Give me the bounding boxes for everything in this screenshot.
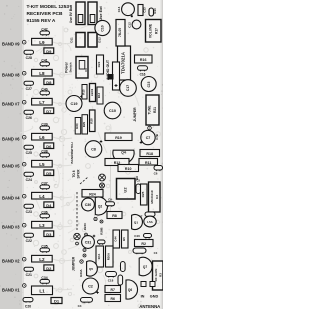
- svg-text:TUNE: TUNE: [148, 105, 152, 115]
- capacitor C21: [24, 267, 34, 277]
- svg-text:U3: U3: [155, 195, 159, 199]
- pad q2 base: [94, 217, 97, 220]
- svg-text:C24: C24: [26, 178, 32, 182]
- svg-text:D4: D4: [46, 203, 52, 208]
- svg-text:L5A: L5A: [147, 220, 154, 224]
- scan noise (decorative): [0, 1, 164, 309]
- band label BAND #8: [2, 73, 20, 78]
- svg-text:C10: C10: [101, 25, 105, 31]
- svg-text:C7B: C7B: [155, 134, 159, 140]
- diode D12: [88, 33, 97, 48]
- svg-text:RECEIVER PCB: RECEIVER PCB: [27, 11, 64, 17]
- diode D5: [44, 170, 54, 176]
- resistor R30: [75, 118, 81, 135]
- svg-text:L9: L9: [39, 40, 45, 45]
- svg-text:R16: R16: [140, 58, 147, 62]
- capacitor C27: [24, 81, 34, 91]
- resistor R15: [82, 85, 87, 100]
- label TO 8 SPKR: [72, 169, 81, 179]
- svg-text:C15: C15: [147, 81, 151, 87]
- svg-text:BAND #7: BAND #7: [2, 102, 20, 107]
- band label BAND #1: [2, 288, 20, 293]
- copper traces (decorative): [20, 14, 160, 308]
- capacitor C10B: [95, 20, 110, 35]
- pad BAND #4: [22, 194, 26, 198]
- svg-text:C30: C30: [85, 203, 92, 207]
- svg-text:R17: R17: [154, 28, 158, 34]
- potentiometer R21 TUNE: [146, 95, 159, 125]
- resistor R29: [82, 115, 88, 134]
- svg-text:D11: D11: [70, 37, 74, 43]
- coil L5A: [144, 216, 156, 227]
- resistor R26: [99, 220, 103, 235]
- label Use 9V Batt: [69, 4, 73, 23]
- capacitor C30: [82, 198, 95, 211]
- inductor L4: [32, 192, 53, 199]
- resistor R12: [105, 159, 129, 166]
- svg-text:R7: R7: [111, 288, 115, 292]
- svg-text:BAND #3: BAND #3: [2, 225, 20, 230]
- svg-text:IN: IN: [141, 295, 145, 299]
- svg-text:BAND #5: BAND #5: [2, 164, 20, 169]
- svg-text:C7: C7: [146, 136, 151, 140]
- inductor L6: [32, 133, 53, 140]
- IC U3 MC34119: [149, 182, 161, 212]
- pad mounting (filled): [108, 74, 114, 80]
- capacitor C44: [113, 230, 120, 248]
- svg-text:C31: C31: [85, 241, 92, 245]
- resistor R7: [105, 286, 121, 293]
- pad tune: [148, 126, 152, 130]
- IC U2: [117, 179, 136, 200]
- svg-text:R3: R3: [158, 273, 162, 277]
- diode D8: [44, 79, 54, 85]
- capacitor C17: [120, 80, 137, 97]
- svg-text:L1: L1: [39, 289, 45, 294]
- svg-text:D2: D2: [46, 266, 52, 271]
- connector audio out J1: [113, 62, 120, 90]
- svg-text:C25: C25: [26, 151, 32, 155]
- svg-text:C44: C44: [113, 236, 117, 242]
- svg-text:Q5: Q5: [89, 267, 93, 271]
- svg-text:D8: D8: [46, 80, 52, 85]
- label R24A: [79, 269, 83, 276]
- resistor R8: [107, 212, 122, 219]
- svg-text:C8: C8: [91, 148, 96, 152]
- speaker terminal 1: [99, 174, 106, 181]
- resistor R11: [139, 159, 158, 166]
- svg-text:C12: C12: [127, 22, 131, 28]
- transistor Q7: [139, 257, 152, 275]
- svg-text:C21: C21: [26, 273, 32, 277]
- pad BAND #3: [22, 223, 26, 227]
- LED LED1: [90, 84, 96, 102]
- svg-text:Switch: Switch: [69, 62, 73, 72]
- svg-text:R2: R2: [141, 242, 146, 246]
- pad BAND #8: [22, 71, 26, 75]
- capacitor C20: [23, 298, 33, 309]
- capacitor C26: [24, 110, 34, 120]
- svg-text:R13: R13: [97, 92, 101, 98]
- pad BAND #9: [22, 40, 26, 44]
- resistor R25: [141, 184, 148, 205]
- svg-text:R5: R5: [122, 237, 126, 241]
- diode D6: [44, 143, 54, 149]
- capacitor C9: [84, 68, 88, 72]
- IC U4 regulator: [116, 20, 125, 47]
- switch S1: [76, 57, 88, 79]
- svg-text:TO 8: TO 8: [72, 170, 76, 177]
- capacitor C40: [134, 234, 151, 239]
- capacitor C4: [78, 298, 93, 309]
- svg-text:T-KIT MODEL 1253: T-KIT MODEL 1253: [27, 4, 70, 10]
- svg-text:R26B: R26B: [99, 227, 103, 234]
- inductor L9: [32, 38, 53, 45]
- svg-text:R23C: R23C: [83, 222, 87, 230]
- svg-text:Q6: Q6: [128, 288, 132, 292]
- resistor R9: [135, 176, 139, 180]
- capacitor C35: [40, 244, 50, 253]
- svg-text:C14: C14: [117, 6, 121, 12]
- svg-text:R11: R11: [145, 161, 151, 165]
- svg-text:ANTENNA: ANTENNA: [139, 304, 160, 309]
- capacitor C36: [40, 210, 50, 219]
- capacitor C2B: [118, 275, 123, 285]
- resistor R28: [89, 110, 95, 132]
- svg-text:R22: R22: [97, 61, 101, 67]
- svg-text:C27: C27: [26, 87, 32, 91]
- capacitor C23: [24, 204, 34, 214]
- resistor R23: [83, 222, 87, 236]
- svg-text:LED1: LED1: [90, 88, 94, 96]
- svg-text:R19: R19: [115, 136, 122, 140]
- svg-text:C19: C19: [71, 102, 78, 106]
- capacitor C37: [40, 181, 50, 190]
- pad P2: [83, 254, 86, 257]
- pad BAND #7: [22, 100, 26, 104]
- capacitor C42: [40, 27, 50, 36]
- band label BAND #4: [2, 196, 20, 201]
- capacitor C39: [40, 122, 50, 130]
- svg-text:R21: R21: [153, 107, 157, 113]
- resistor R5: [122, 230, 129, 248]
- inductor L2: [32, 255, 53, 262]
- svg-text:BAND #8: BAND #8: [2, 73, 20, 78]
- svg-text:BAND #2: BAND #2: [2, 259, 20, 264]
- svg-text:D12: D12: [98, 37, 102, 43]
- transistor Q6: [126, 280, 138, 299]
- svg-text:C18: C18: [108, 279, 114, 283]
- svg-text:C23: C23: [26, 210, 32, 214]
- inductor L3: [32, 221, 53, 228]
- label Use Ext: [98, 6, 103, 21]
- transistor Q1: [132, 215, 143, 230]
- title text: [27, 4, 70, 24]
- svg-text:BAND #1: BAND #1: [2, 288, 20, 293]
- svg-text:C6: C6: [154, 172, 158, 176]
- capacitor C10: [104, 102, 121, 119]
- band label BAND #6: [2, 137, 20, 142]
- svg-text:R9: R9: [135, 176, 139, 180]
- svg-text:R18: R18: [146, 152, 153, 156]
- capacitor C2: [83, 278, 99, 294]
- diode D9: [44, 48, 54, 54]
- svg-text:BAND #4: BAND #4: [2, 196, 20, 201]
- capacitor C28: [24, 50, 34, 60]
- inductor L1: [32, 286, 53, 295]
- svg-text:R24: R24: [89, 193, 96, 197]
- svg-text:C10: C10: [109, 109, 116, 113]
- diode D3: [44, 231, 54, 237]
- capacitor C9B: [106, 198, 115, 207]
- svg-text:L3: L3: [39, 223, 45, 228]
- diode D1: [51, 298, 62, 304]
- svg-text:C13: C13: [143, 7, 147, 13]
- transistor Q2: [95, 197, 107, 215]
- capacitor C33: [98, 240, 106, 245]
- capacitor C12: [127, 20, 141, 29]
- transistor Q4: [113, 150, 134, 163]
- svg-text:D3: D3: [46, 232, 52, 237]
- svg-text:BAND #6: BAND #6: [2, 137, 20, 142]
- svg-text:L5: L5: [39, 162, 45, 167]
- diode D11: [76, 33, 85, 48]
- svg-text:C4: C4: [78, 304, 82, 308]
- label ANTENNA: [139, 304, 160, 309]
- label IN GND: [141, 295, 159, 299]
- capacitor C24: [24, 172, 34, 182]
- svg-text:Use Ext: Use Ext: [98, 6, 103, 21]
- band label BAND #2: [2, 259, 20, 264]
- svg-text:C40: C40: [134, 234, 140, 238]
- svg-text:C17: C17: [126, 85, 130, 91]
- pad BAND #2: [22, 257, 26, 261]
- capacitor C7B: [140, 130, 159, 144]
- capacitor C18: [106, 272, 117, 283]
- resistor R7A: [96, 246, 104, 267]
- capacitor C14: [117, 3, 134, 18]
- label JUMPER: [133, 107, 137, 122]
- inductor L5: [32, 160, 53, 167]
- svg-text:C9: C9: [84, 68, 88, 72]
- battery clip B1: [76, 2, 85, 25]
- transistor Q5: [87, 261, 98, 276]
- band label BAND #9: [2, 42, 20, 47]
- label Power Switch: [64, 62, 72, 73]
- svg-text:BAND #9: BAND #9: [2, 42, 20, 47]
- svg-text:TDA7021A: TDA7021A: [120, 51, 125, 74]
- svg-text:RF GAIN: RF GAIN: [154, 268, 158, 281]
- potentiometer R3 RF GAIN: [153, 261, 164, 290]
- band label BAND #7: [2, 102, 20, 107]
- battery clip B2: [88, 2, 97, 25]
- resistor R18: [140, 150, 160, 157]
- svg-text:JUMPER: JUMPER: [72, 256, 76, 271]
- svg-text:R25: R25: [141, 191, 145, 197]
- svg-text:D6: D6: [46, 144, 52, 149]
- capacitor C15: [141, 77, 156, 92]
- wire dashed speaker: [77, 177, 88, 230]
- svg-text:Q4: Q4: [121, 151, 126, 155]
- svg-text:91155 REV A: 91155 REV A: [27, 18, 56, 24]
- capacitor C40: [40, 87, 50, 96]
- board outline: [0, 0, 163, 309]
- capacitor C16: [138, 66, 148, 77]
- resistor R2: [135, 240, 154, 247]
- capacitor C41: [40, 58, 50, 67]
- svg-text:D7: D7: [46, 109, 52, 114]
- pad IN: [141, 282, 146, 287]
- pad BAND #6: [22, 135, 26, 139]
- resistor R16: [135, 55, 153, 63]
- capacitor C7: [139, 212, 155, 219]
- speaker terminal 2: [100, 183, 105, 188]
- svg-text:L7: L7: [39, 100, 45, 105]
- svg-text:R15: R15: [82, 89, 86, 95]
- band label BAND #3: [2, 225, 20, 230]
- svg-text:SPKR: SPKR: [77, 169, 81, 179]
- capacitor C25: [24, 145, 34, 155]
- capacitor C19: [66, 95, 83, 111]
- capacitor C5: [136, 179, 141, 194]
- resistor R19: [105, 133, 132, 141]
- resistor R24: [82, 190, 103, 198]
- capacitor C34: [40, 276, 50, 284]
- svg-text:C9: C9: [108, 198, 112, 202]
- label D11: [70, 37, 74, 43]
- label D12: [98, 37, 102, 43]
- resistor R6: [105, 295, 121, 302]
- capacitor C13: [138, 5, 147, 16]
- svg-text:GND: GND: [150, 295, 159, 299]
- speaker terminal 3: [74, 233, 80, 245]
- pad BAND #1: [23, 284, 27, 288]
- inductor L8: [32, 69, 53, 76]
- svg-text:D5: D5: [46, 171, 52, 176]
- capacitor C38: [40, 149, 50, 158]
- resistor R12A: [97, 87, 103, 104]
- inductor L7: [32, 98, 53, 105]
- svg-text:R6: R6: [111, 297, 115, 301]
- potentiometer R17 VOLUME: [146, 20, 162, 43]
- pad P1: [83, 249, 86, 252]
- svg-text:VOLUME: VOLUME: [149, 23, 153, 38]
- pad R24A: [80, 260, 83, 263]
- capacitor C31: [82, 235, 96, 249]
- diode D4: [44, 202, 54, 208]
- svg-text:D9: D9: [46, 49, 52, 54]
- IC U1: [118, 42, 131, 81]
- svg-text:L8: L8: [39, 71, 45, 76]
- resistor R22: [97, 55, 104, 74]
- resistor R20: [106, 246, 114, 267]
- label AUDIO OUT: [106, 59, 110, 80]
- svg-text:R8: R8: [112, 214, 117, 218]
- svg-text:Q2: Q2: [98, 205, 102, 209]
- svg-text:C20: C20: [25, 305, 31, 309]
- resistor R10: [118, 165, 139, 172]
- pad BAND #5: [22, 162, 26, 166]
- resistor R13: [149, 8, 157, 16]
- svg-text:78L05: 78L05: [118, 28, 122, 37]
- svg-text:Use 9V Batt: Use 9V Batt: [69, 4, 73, 23]
- svg-text:C2: C2: [88, 285, 93, 289]
- label JUMPER 2: [72, 256, 76, 271]
- label BANDSWITCH: [70, 142, 74, 164]
- svg-text:R29: R29: [82, 121, 86, 127]
- capacitor C3: [121, 262, 126, 272]
- pad GND: [150, 282, 155, 287]
- band label BAND #5: [2, 164, 20, 169]
- svg-text:Q1: Q1: [134, 221, 138, 225]
- svg-text:R10: R10: [125, 167, 132, 171]
- capacitor C8: [85, 140, 102, 157]
- diode D2: [44, 265, 54, 271]
- svg-text:D1: D1: [54, 299, 60, 304]
- svg-text:C28: C28: [26, 56, 32, 60]
- diode D7: [44, 108, 54, 114]
- svg-text:BANDSWITCH: BANDSWITCH: [70, 142, 74, 164]
- capacitor C1: [133, 248, 158, 255]
- capacitor C22: [24, 233, 34, 243]
- capacitor C6: [154, 166, 163, 176]
